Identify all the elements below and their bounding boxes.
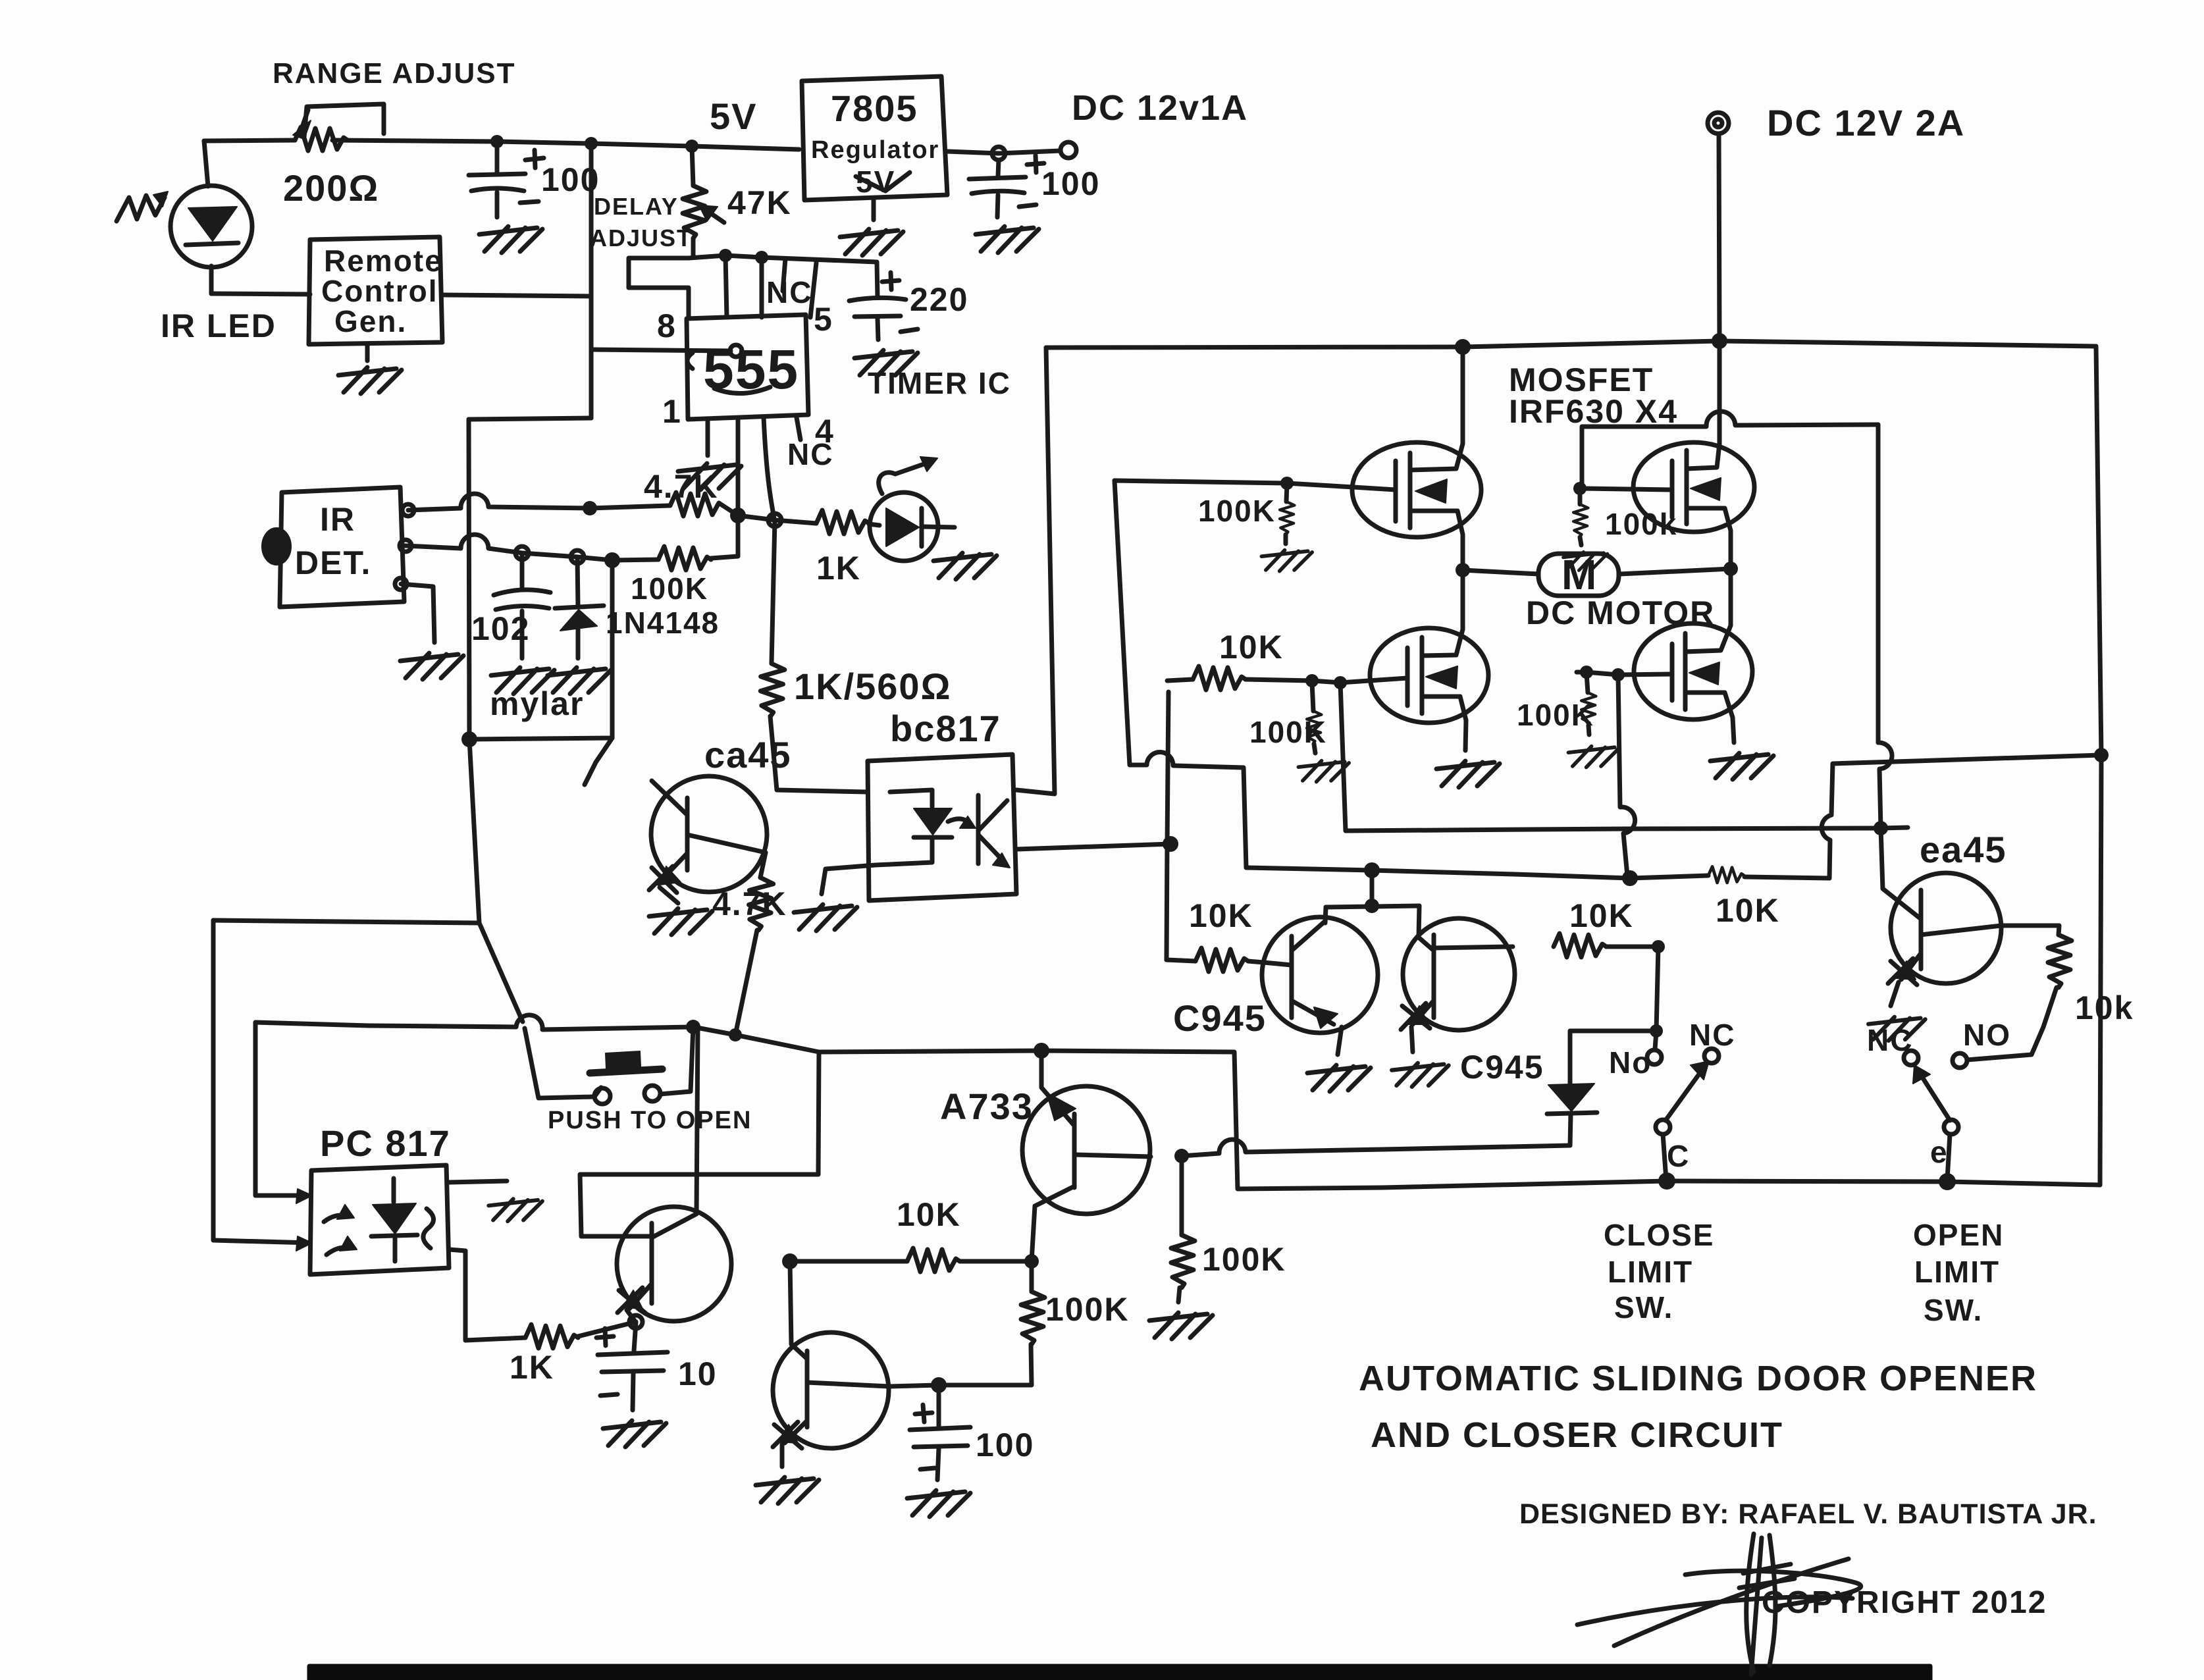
- pin4 stub: [797, 417, 800, 440]
- node A733 collector: [1174, 1149, 1189, 1163]
- svg-text:1K: 1K: [816, 550, 861, 587]
- IR LED (emitter): [204, 141, 208, 186]
- capacitor 100uF (top-left): [495, 142, 500, 172]
- svg-text:AUTOMATIC SLIDING DOOR OPEN: AUTOMATIC SLIDING DOOR OPENER: [1359, 1359, 2037, 1398]
- wire far right vertical: [2096, 346, 2101, 1185]
- LED arrow mark: [879, 462, 930, 494]
- svg-text:OPEN: OPEN: [1913, 1218, 2004, 1252]
- transistor C945 Q2 (center): [1262, 917, 1378, 1033]
- svg-text:100K: 100K: [1202, 1241, 1286, 1278]
- svg-text:100K: 100K: [1249, 715, 1327, 749]
- opto LED: [890, 790, 932, 807]
- svg-text:1K/560Ω: 1K/560Ω: [794, 666, 951, 707]
- svg-text:DESIGNED BY: RAFAEL V. BAUTIST: DESIGNED BY: RAFAEL V. BAUTISTA JR.: [1519, 1498, 2097, 1530]
- wire remote box to 5V node: [442, 295, 591, 296]
- svg-text:NC: NC: [766, 275, 812, 309]
- svg-text:NC: NC: [787, 437, 833, 471]
- M4 gate wire: [1577, 672, 1672, 675]
- node on pin1 wire at x896: [583, 501, 597, 515]
- svg-text:100K: 100K: [1517, 698, 1594, 732]
- wire opto emitter output: [1016, 844, 1170, 849]
- PC817 internal arrows: [324, 1215, 348, 1222]
- resistor 10K to C945#2 base: [1167, 960, 1195, 961]
- capacitor 100uF (7805 output): [998, 160, 999, 176]
- wire V1 long vertical: [469, 419, 469, 739]
- svg-text:5V: 5V: [710, 95, 758, 137]
- open limit switch NO terminal: [1953, 1053, 1967, 1068]
- open limit common to bus: [1947, 1134, 1950, 1180]
- svg-text:RANGE ADJUST: RANGE ADJUST: [273, 57, 516, 90]
- resistor 100K under A733 collector: [1180, 1156, 1184, 1235]
- PC817 bottom right pin: [449, 1249, 525, 1340]
- terminal DC 12V 1A: [1061, 142, 1076, 158]
- svg-text:SW.: SW.: [1924, 1293, 1983, 1327]
- ground under 7805: [872, 200, 876, 220]
- pin1 ground stub: [706, 419, 710, 456]
- svg-text:DELAY: DELAY: [594, 193, 679, 220]
- svg-text:47K: 47K: [727, 184, 792, 221]
- diode near close limit: [1570, 1031, 1656, 1084]
- svg-text:102: 102: [471, 610, 530, 647]
- M4 source to ground: [1733, 718, 1734, 743]
- ground under 102: [491, 668, 554, 694]
- svg-text:100K: 100K: [1045, 1291, 1130, 1328]
- remote control generator box: [309, 237, 442, 344]
- resistor 100K under M4 gate: [1587, 673, 1588, 693]
- IR detector box: [280, 487, 404, 607]
- scanner black strip bottom: [309, 1666, 1930, 1680]
- svg-text:220: 220: [910, 281, 968, 318]
- svg-text:C945: C945: [1460, 1049, 1544, 1086]
- svg-text:100: 100: [1041, 165, 1100, 202]
- wire 555 pin8 loop: [629, 258, 689, 317]
- capacitor 102 mylar: [520, 553, 525, 590]
- base wire of Q1 to 4.7K: [687, 835, 766, 853]
- svg-text:Remote: Remote: [324, 244, 443, 278]
- PC817 LED: [373, 1203, 416, 1234]
- M4 drain from motor node: [1729, 569, 1733, 625]
- svg-text:1: 1: [662, 393, 682, 430]
- svg-text:C: C: [1667, 1139, 1690, 1173]
- open limit switch NC terminal: [1904, 1051, 1918, 1065]
- svg-text:4.7K: 4.7K: [712, 885, 787, 922]
- wire M2 gate riser and cross bar (hop over DC line): [1582, 411, 1878, 488]
- svg-text:100K: 100K: [631, 571, 708, 606]
- ground under capacitor 100uF: [479, 226, 542, 253]
- capacitor 10uF: [634, 1322, 636, 1351]
- svg-text:5: 5: [814, 301, 833, 338]
- svg-text:10: 10: [678, 1355, 718, 1392]
- MOSFET M2 top-right IRF630: [1633, 442, 1754, 532]
- svg-text:10K: 10K: [1716, 892, 1780, 929]
- wire base feed staircase: [580, 1052, 819, 1236]
- opto transistor K: [976, 795, 981, 864]
- svg-text:DET.: DET.: [295, 544, 371, 581]
- node V1-mylar junction: [461, 731, 477, 747]
- transistor (bottom, by 100uF cap): [773, 1332, 889, 1448]
- wire collector tie bar: [1326, 906, 1419, 907]
- wire to 555 pin2: [591, 350, 731, 351]
- resistor 1K: [525, 1325, 578, 1348]
- node 5V rail to delay pot: [685, 140, 698, 153]
- M3 source to ground: [1465, 720, 1466, 750]
- potentiometer DELAY ADJUST 47K: [692, 146, 693, 186]
- svg-text:TIMER IC: TIMER IC: [868, 366, 1011, 400]
- svg-text:NO: NO: [1963, 1018, 2011, 1052]
- M2 gate wire: [1582, 488, 1672, 490]
- resistor 100K under M3 gate node: [1312, 682, 1313, 711]
- M3 gate bus with 10K: [1167, 679, 1193, 681]
- svg-text:bc817: bc817: [890, 708, 1001, 749]
- svg-text:Regulator: Regulator: [811, 136, 939, 164]
- wire x1773 vertical (gate bus to C945#2 base): [1167, 692, 1168, 960]
- svg-text:10K: 10K: [1189, 897, 1253, 934]
- potentiometer RANGE ADJUST 200R: [295, 127, 348, 151]
- wire IR LED to remote box: [211, 294, 310, 294]
- M1 source to motor node: [1461, 535, 1465, 570]
- svg-text:PUSH TO OPEN: PUSH TO OPEN: [548, 1107, 752, 1134]
- push button PUSH TO OPEN: [594, 1088, 601, 1097]
- svg-text:A733: A733: [940, 1086, 1034, 1127]
- IC 555 box: [687, 315, 808, 419]
- svg-text:NC: NC: [1689, 1018, 1735, 1052]
- M3 drain from motor node: [1461, 570, 1465, 629]
- ground under diode: [548, 668, 611, 694]
- MOSFET M4 bottom-right IRF630: [1634, 623, 1752, 720]
- M2 source to motor node: [1729, 531, 1733, 569]
- transistor C945 Q1: [651, 776, 767, 892]
- motor DC: [1538, 554, 1619, 596]
- svg-text:Control: Control: [321, 274, 438, 308]
- node 10K-A733: [782, 1253, 798, 1269]
- close limit common to bus: [1663, 1134, 1666, 1180]
- node diode branch: [571, 550, 584, 564]
- wire top 12V bus: [1046, 341, 2096, 348]
- resistor 10K from Q3 base wire to diode node: [1554, 933, 1606, 957]
- resistor 1K: [816, 510, 869, 534]
- wire 7805 output: [947, 151, 1061, 153]
- resistor 100K under A733 emitter: [1030, 1261, 1034, 1292]
- node capacitor branch: [515, 546, 529, 560]
- svg-text:ea45: ea45: [1920, 829, 2007, 870]
- wire NC pin stub (pin5 area): [783, 259, 785, 291]
- svg-text:IR: IR: [320, 501, 355, 538]
- wire opto collector to top bus: [1016, 348, 1055, 794]
- signature: [1577, 1559, 1861, 1646]
- MOSFET M1 top-left IRF630: [1352, 442, 1481, 537]
- optocoupler PC817 box: [310, 1165, 449, 1274]
- svg-text:1K: 1K: [510, 1349, 554, 1386]
- node at cap: [992, 147, 1005, 160]
- node V2 branch: [604, 552, 620, 568]
- resistor 100K on pin2 wire: [658, 546, 711, 570]
- resistor 10K to A733 emitter: [790, 1259, 907, 1264]
- optocoupler box bc817: [868, 754, 1016, 901]
- terminal DC 12V 2A: [1708, 113, 1729, 134]
- close limit switch NC terminal: [1704, 1049, 1719, 1063]
- transistor C1815 (left): [617, 1207, 731, 1321]
- wire left loop vertical x324: [213, 920, 479, 923]
- resistor 4.7K to B1: [760, 853, 766, 878]
- resistor 100K under M2 gate: [1578, 490, 1583, 504]
- resistor 4.7K on pin1 wire: [670, 492, 723, 516]
- svg-text:10K: 10K: [1569, 897, 1634, 934]
- svg-text:100K: 100K: [1198, 494, 1276, 528]
- antenna squiggle of IR LED: [117, 196, 165, 221]
- wire bus2: [1246, 868, 1708, 878]
- svg-text:NC: NC: [1867, 1023, 1913, 1057]
- svg-text:DC 12v1A: DC 12v1A: [1072, 88, 1248, 128]
- svg-text:100k: 100k: [1605, 507, 1677, 541]
- svg-text:8: 8: [657, 307, 677, 344]
- wire staircase from M1 gate: [1115, 481, 1246, 868]
- svg-text:100: 100: [541, 161, 600, 198]
- M1 gate bus: [1115, 481, 1396, 490]
- wire down-left to V1: [469, 418, 591, 419]
- svg-text:IR LED: IR LED: [161, 307, 276, 344]
- resistor 10K on Q4 collector: [2001, 926, 2059, 935]
- wire V2 to C945 collector: [585, 738, 612, 785]
- wire B1 long bus (hop over V1): [255, 1015, 2100, 1189]
- M2 drain from DC line: [1718, 341, 1722, 444]
- wire nodes to 555 top: [725, 255, 762, 317]
- svg-text:Gen.: Gen.: [334, 304, 407, 338]
- svg-text:e: e: [1930, 1135, 1949, 1169]
- wire 555 out to LED node: [736, 419, 741, 515]
- wire x2853 down (hop over right cross wire): [1878, 425, 1892, 828]
- svg-text:PC 817: PC 817: [320, 1122, 451, 1164]
- svg-text:1N4148: 1N4148: [606, 606, 720, 640]
- svg-text:100: 100: [976, 1427, 1034, 1463]
- resistor 1K/560 vertical: [772, 520, 775, 664]
- wire V1 continues to push button: [469, 739, 594, 1098]
- ground under remote box: [365, 344, 370, 361]
- svg-text:200Ω: 200Ω: [283, 167, 379, 209]
- IR DET pin3 ground wire: [401, 584, 434, 643]
- wire vertical 5V feed x898: [589, 144, 594, 418]
- wire M4 gate drop to bus2 (hop over bus1): [1618, 675, 1635, 876]
- node 555 out: [730, 508, 746, 523]
- svg-text:M: M: [1561, 551, 1598, 598]
- close limit switch arm: [1656, 1120, 1670, 1134]
- wire diode node vertical: [1656, 947, 1658, 1031]
- wire 555 out to 1K: [738, 515, 816, 523]
- node 5V at x898: [585, 137, 598, 150]
- svg-text:LIMIT: LIMIT: [1608, 1255, 1693, 1289]
- ground under capacitor 220uF: [854, 350, 918, 377]
- LED indicator circle: [869, 524, 879, 525]
- svg-text:DC 12V 2A: DC 12V 2A: [1767, 102, 1965, 144]
- regulator 7805 box: [802, 76, 947, 200]
- wire DC terminal to bus: [1719, 134, 1719, 341]
- svg-text:AND CLOSER CIRCUIT: AND CLOSER CIRCUIT: [1371, 1415, 1783, 1455]
- svg-text:ca45: ca45: [704, 734, 792, 775]
- diode 1N4148: [577, 557, 578, 607]
- ground under Q1 emitter: [649, 908, 712, 935]
- capacitor 220uF timer: [877, 262, 878, 298]
- ground under output cap: [976, 226, 1039, 253]
- wire bus2 right riser (hop over bus1): [1822, 755, 2101, 878]
- ground right of LED: [933, 553, 997, 579]
- PC817 top right pin to ground: [449, 1181, 507, 1182]
- wire top rail left: [204, 140, 799, 149]
- motor wires: [1463, 570, 1538, 574]
- node stub bus2 to collectors: [1370, 870, 1375, 906]
- resistor 100K under M1 gate node: [1286, 485, 1287, 502]
- opto LED cathode to ground: [822, 865, 876, 894]
- svg-text:SW.: SW.: [1614, 1290, 1673, 1325]
- svg-text:COPYRIGHT 2012: COPYRIGHT 2012: [1762, 1585, 2047, 1620]
- PC817 curly: [423, 1209, 434, 1248]
- svg-text:LIMIT: LIMIT: [1914, 1255, 2000, 1289]
- svg-text:7805: 7805: [831, 88, 918, 129]
- wire A733 collector line to diode: [1182, 1140, 1570, 1156]
- wire IR DET pin1 (with hop over V1): [408, 494, 670, 510]
- svg-text:10k: 10k: [2075, 989, 2134, 1026]
- wire vertical x388 to PC817 pin1: [255, 1022, 310, 1195]
- pins of IR DET: [402, 504, 414, 516]
- capacitor 100uF (bottom): [937, 1385, 941, 1426]
- svg-text:10K: 10K: [1219, 629, 1284, 666]
- svg-text:CLOSE: CLOSE: [1604, 1218, 1714, 1252]
- node on top rail at cap1: [490, 135, 504, 148]
- M1 drain to bus: [1461, 347, 1465, 444]
- wire pot bottom to 555 top / cap220: [689, 255, 877, 262]
- opto arrows: [948, 819, 970, 824]
- wire pin5 to cap220 rail: [810, 263, 816, 317]
- wire V2 vertical: [469, 560, 612, 739]
- open limit switch arm: [1944, 1120, 1958, 1134]
- transistor C945 Q3 (left of limit sw): [1403, 918, 1515, 1030]
- svg-text:10K: 10K: [897, 1196, 961, 1233]
- wire bus1: [1340, 683, 1908, 831]
- close limit switch NO terminal: [1655, 1031, 1656, 1049]
- MOSFET M3 bottom-left IRF630: [1370, 628, 1488, 723]
- svg-text:No: No: [1609, 1045, 1652, 1080]
- svg-text:ADJUST: ADJUST: [590, 224, 693, 251]
- wire IR DET pin2 (with hop over V1): [406, 535, 658, 560]
- svg-text:C945: C945: [1173, 997, 1267, 1039]
